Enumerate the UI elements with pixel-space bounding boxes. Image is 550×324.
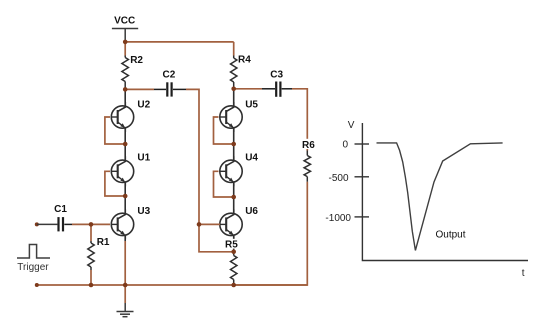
transistor U4: [220, 156, 242, 186]
junction node U4 feedback: [231, 195, 236, 200]
transistor U3: [111, 209, 133, 239]
wire R2 bottom to C2: [125, 88, 154, 90]
resistor R2: [122, 56, 128, 90]
svg-text:C3: C3: [270, 69, 283, 80]
junction node C1/R1/U3 base: [89, 222, 94, 227]
junction node ground on rail: [123, 283, 128, 288]
wire U5 collector lead: [233, 89, 235, 107]
junction node R1 on rail: [89, 283, 94, 288]
wire U1 emitter to U3 collector: [124, 182, 126, 214]
resistor R1: [88, 241, 94, 270]
resistor R6: [304, 151, 310, 182]
wire VCC rail: [125, 41, 234, 43]
svg-text:U1: U1: [137, 153, 150, 164]
svg-text:R6: R6: [302, 140, 315, 151]
Trigger label: [17, 262, 49, 273]
junction node cross net / U6 base: [197, 222, 202, 227]
rail left terminal: [35, 283, 39, 287]
resistor R5: [231, 252, 237, 285]
ground rail wire: [37, 284, 308, 286]
svg-text:t: t: [522, 268, 525, 279]
svg-text:0: 0: [342, 140, 348, 151]
junction node U1 feedback: [123, 194, 128, 199]
wire R4 bottom to C3: [234, 88, 262, 90]
graph t axis label: [522, 268, 525, 279]
wire C2 right to cross-coupling net: [186, 89, 234, 251]
svg-text:U4: U4: [245, 153, 258, 164]
junction node U6 emitter / R5: [231, 250, 236, 255]
svg-text:Output: Output: [436, 230, 466, 241]
pulse trigger symbol: [17, 245, 50, 259]
transistor U5: [220, 102, 242, 132]
wire trigger to C1: [37, 223, 58, 225]
svg-text:R1: R1: [97, 237, 110, 248]
wire U1 base feedback loop: [105, 171, 125, 196]
capacitor C3: [262, 82, 292, 97]
svg-text:R2: R2: [130, 55, 143, 66]
svg-text:VCC: VCC: [114, 16, 135, 27]
wire U6 emitter to R5: [233, 235, 235, 252]
wire R6 bottom to ground rail: [234, 182, 308, 285]
graph tick -1000: [355, 216, 370, 218]
trigger input terminal: [35, 222, 39, 226]
wire U3 emitter lead: [124, 235, 126, 241]
svg-text:U6: U6: [245, 206, 258, 217]
svg-text:V: V: [348, 120, 355, 131]
wire C3 right to R6 branch: [292, 89, 307, 151]
wire R1 top lead: [90, 224, 92, 241]
svg-text:U3: U3: [137, 206, 150, 217]
wire U2 base feedback loop: [105, 117, 125, 144]
svg-text:R5: R5: [225, 240, 238, 251]
capacitor C2: [154, 82, 186, 96]
wire C1 to U3 base node: [72, 223, 110, 225]
junction node R2/C2/U2 collector: [123, 87, 128, 92]
junction node R5 on rail: [231, 283, 236, 288]
transistor U6: [220, 209, 242, 239]
svg-text:-1000: -1000: [325, 213, 351, 224]
svg-text:U5: U5: [245, 99, 258, 110]
svg-text:R4: R4: [238, 54, 251, 65]
output waveform: [377, 143, 503, 251]
junction node below VCC: [123, 40, 128, 45]
wire U3 emitter to ground rail: [124, 241, 126, 303]
svg-text:Trigger: Trigger: [17, 262, 49, 273]
wire R2 top lead: [124, 42, 126, 56]
ground stem: [124, 303, 126, 312]
junction node U2 feedback: [123, 142, 128, 147]
junction node U5 feedback: [231, 142, 236, 147]
wire U5 base feedback loop: [214, 117, 234, 144]
svg-text:C1: C1: [54, 204, 67, 215]
graph tick -500: [355, 176, 370, 178]
graph axes: [362, 123, 528, 261]
capacitor C1: [59, 217, 73, 231]
wire U6 base lead: [199, 223, 220, 225]
resistor R4: [231, 56, 237, 89]
svg-text:C2: C2: [163, 70, 176, 81]
VCC label: [114, 16, 135, 27]
wire U5 emitter to U4 collector: [233, 128, 235, 161]
svg-text:-500: -500: [328, 173, 348, 184]
wire U2 emitter to U1 collector: [124, 128, 126, 161]
transistor U2: [111, 102, 133, 132]
graph tick 0: [355, 143, 370, 145]
wire R4 top lead: [233, 42, 235, 56]
transistor U1: [111, 156, 133, 186]
VCC power symbol: [112, 29, 138, 42]
graph V axis label: [348, 120, 355, 131]
wire R1 bottom to rail: [90, 270, 92, 285]
wire U4 emitter to U6 collector: [233, 182, 235, 214]
wire U4 base feedback loop: [214, 171, 234, 197]
ground symbol: [117, 312, 134, 317]
Output label: [436, 230, 466, 241]
junction node R4/C3/U5 collector: [231, 87, 236, 92]
svg-text:U2: U2: [137, 99, 150, 110]
wire U2 collector lead: [124, 89, 126, 106]
